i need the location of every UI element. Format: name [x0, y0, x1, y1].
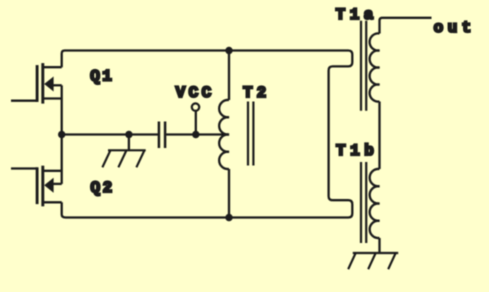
- node VCC junction: [192, 131, 199, 138]
- ground (middle, chassis): [102, 136, 145, 167]
- node T2 top junction: [225, 47, 232, 54]
- transformer T1a winding: [370, 33, 380, 101]
- node ground tap junction: [125, 131, 132, 138]
- capacitor: [159, 122, 165, 149]
- node Q1 source junction: [58, 131, 65, 138]
- wire T1b to ground: [378, 238, 380, 253]
- transformer T2 core: [248, 102, 253, 166]
- svg-text:VCC: VCC: [176, 84, 215, 102]
- wire middle rail right (capacitor to T2 tap): [166, 133, 229, 135]
- svg-text:T2: T2: [243, 84, 270, 102]
- ground (T1b, chassis): [348, 253, 398, 269]
- transistor Q2: [11, 135, 62, 207]
- svg-text:Q2: Q2: [91, 179, 115, 197]
- transistor Q1: [11, 63, 62, 134]
- svg-text:T1b: T1b: [336, 142, 378, 160]
- VCC terminal circle: [192, 103, 199, 110]
- wire VCC lead: [195, 111, 197, 134]
- wire T1a to T1b: [378, 102, 380, 170]
- transformer T1b core: [361, 162, 366, 243]
- wire out lead: [380, 18, 432, 34]
- node T2 bottom junction: [225, 214, 232, 221]
- transformer T1a core: [361, 21, 366, 111]
- svg-text:out: out: [434, 19, 476, 37]
- transformer T2 winding: [219, 51, 229, 218]
- wire top rail / T1 primary loop / bottom rail: [62, 51, 353, 218]
- svg-text:Q1: Q1: [90, 68, 114, 86]
- transformer T1b winding: [370, 169, 380, 238]
- svg-text:T1a: T1a: [336, 6, 378, 24]
- wire middle rail left (Q1 source to capacitor): [62, 133, 159, 135]
